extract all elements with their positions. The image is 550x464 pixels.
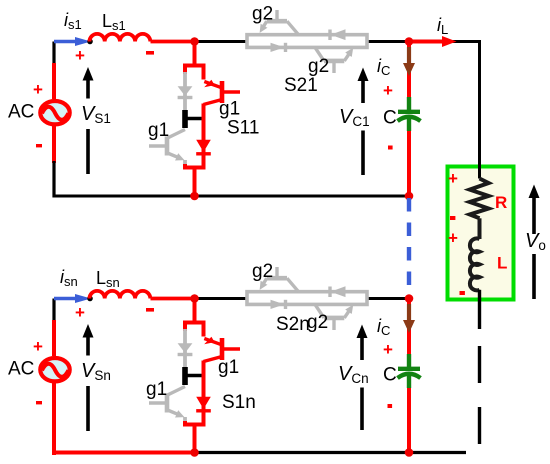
- node bar black S1n: [182, 367, 188, 385]
- svg-text:isn: isn: [60, 267, 78, 289]
- label minus Cn: [388, 404, 393, 408]
- diode gray S21 lower: [271, 43, 286, 52]
- wire AC branch red upper: [52, 63, 56, 99]
- svg-text:Ls1: Ls1: [102, 11, 126, 33]
- svg-text:+: +: [383, 81, 393, 100]
- label minus Ls1: [146, 51, 154, 55]
- arrow V_Cn upper: [360, 337, 364, 360]
- wire bottom rail red: [54, 453, 195, 456]
- svg-text:S11: S11: [227, 118, 259, 139]
- transistor gray S2n upper: [264, 267, 299, 292]
- wire cap2 red lower: [407, 388, 411, 453]
- arrow i_s1 blue: [54, 40, 76, 44]
- arrow V_C1 upper: [361, 80, 365, 103]
- label minus L: [460, 291, 465, 295]
- svg-text:C: C: [383, 108, 397, 129]
- svg-text:+: +: [33, 337, 43, 356]
- wire S11 bottom bracket: [185, 152, 204, 168]
- wire AC2 branch red lower: [52, 383, 56, 454]
- wire S1n bottom bracket: [185, 409, 204, 425]
- label minus AC: [36, 144, 42, 147]
- transistor gray S2n lower: [315, 304, 349, 330]
- arrow V_o lower: [532, 254, 536, 299]
- switch S21: [247, 4, 367, 97]
- switch S11: [148, 42, 259, 197]
- wire S1n mid link black: [185, 374, 204, 378]
- transistor gray S11: [149, 130, 185, 166]
- arrow V_Sn lower: [86, 386, 90, 431]
- svg-text:iC: iC: [377, 316, 390, 338]
- wire S11 mid link black: [185, 117, 204, 121]
- arrow V_C1 lower: [361, 131, 365, 176]
- svg-text:g2: g2: [252, 4, 273, 25]
- node cap C1: [405, 37, 414, 46]
- wire top rail black right to load: [366, 42, 480, 179]
- svg-text:AC: AC: [8, 359, 34, 380]
- svg-text:L: L: [497, 254, 507, 273]
- wire S11 left branch gray: [183, 72, 187, 112]
- wire inductor to node red: [151, 40, 195, 44]
- capacitor Cn: [398, 369, 421, 378]
- wire S1n top bracket: [185, 323, 204, 337]
- wire cap2 green lower: [407, 373, 411, 388]
- wire AC branch top black: [52, 42, 55, 66]
- arrow V_S1 upper: [86, 80, 90, 99]
- wire top rail black left: [195, 40, 249, 43]
- svg-text:S2n: S2n: [276, 314, 310, 335]
- svg-text:VC1: VC1: [339, 106, 370, 129]
- wire S11 stem top: [193, 42, 197, 66]
- svg-text:+: +: [75, 46, 85, 65]
- label minus C1: [388, 146, 393, 150]
- wire cap2 red upper: [407, 299, 411, 357]
- svg-text:g2: g2: [308, 56, 329, 77]
- node S1n top: [190, 294, 199, 303]
- load resistor R: [470, 179, 489, 219]
- svg-text:VSn: VSn: [81, 360, 111, 383]
- svg-text:S21: S21: [284, 75, 318, 96]
- svg-text:g1: g1: [148, 120, 169, 141]
- label minus R: [450, 216, 455, 220]
- wire cap green upper: [407, 97, 411, 112]
- node S11 top: [190, 37, 199, 46]
- switch S2n: [247, 261, 367, 335]
- capacitor branch Cn: [338, 299, 421, 453]
- wire S11 top bracket: [185, 66, 204, 80]
- transistor gray S21 lower: [315, 47, 349, 73]
- svg-text:+: +: [75, 303, 85, 322]
- node S1n bottom: [190, 448, 199, 457]
- wire S1n stem top: [193, 299, 197, 323]
- svg-text:Vo: Vo: [525, 230, 546, 253]
- node S11 bottom: [190, 192, 199, 201]
- diode D red S11: [196, 140, 211, 154]
- load inductor L: [470, 238, 480, 290]
- svg-text:+: +: [448, 169, 458, 188]
- svg-text:+: +: [33, 80, 43, 99]
- svg-text:g1: g1: [218, 357, 239, 378]
- node cap Cn top: [405, 294, 414, 303]
- capacitor C1: [398, 112, 421, 121]
- AC source V_Sn: [40, 358, 69, 381]
- svg-text:g2: g2: [307, 312, 328, 333]
- wire inductor2 to node red: [151, 297, 195, 301]
- wire load bottom solid: [478, 290, 481, 329]
- arrow i_L: [409, 40, 443, 44]
- wire top rail2 black right: [366, 297, 409, 300]
- wire cap2 green upper: [407, 354, 411, 369]
- inductor L_sn: [90, 291, 151, 299]
- svg-text:g2: g2: [252, 261, 273, 282]
- wire top rail2 black left: [195, 297, 249, 300]
- node bar black S11: [182, 110, 188, 128]
- wire S1n left branch gray: [183, 329, 187, 369]
- capacitor branch C1: [339, 42, 421, 197]
- label minus AC2: [36, 401, 42, 404]
- wire cap red upper: [407, 42, 411, 100]
- wire bottom rail black: [195, 451, 467, 454]
- svg-text:iC: iC: [377, 56, 390, 78]
- wire AC2 branch red upper: [52, 320, 56, 356]
- arrow i_C2 brown: [407, 304, 411, 321]
- wire AC branch red lower: [52, 126, 56, 163]
- load box RL: [448, 167, 514, 300]
- wire load bottom dashed: [478, 346, 481, 444]
- diode D red S1n: [196, 397, 211, 411]
- node inductor2 start: [87, 296, 93, 302]
- svg-text:is1: is1: [64, 10, 82, 32]
- arrow i_C brown: [407, 47, 411, 64]
- svg-text:S1n: S1n: [222, 392, 256, 413]
- diode D gray S11: [178, 86, 193, 97]
- label minus Lsn: [146, 308, 154, 312]
- wire S2n frame: [247, 292, 367, 305]
- transistor gray S1n: [149, 387, 185, 423]
- diode D gray S1n: [178, 343, 193, 354]
- wire blue dashed link: [407, 198, 411, 300]
- diode gray S2n lower: [271, 300, 286, 309]
- svg-text:AC: AC: [8, 102, 34, 123]
- arrow V_o upper: [532, 197, 536, 234]
- svg-text:+: +: [383, 340, 393, 359]
- transistor red S1n: [204, 337, 241, 362]
- diode gray S2n upper: [330, 286, 346, 297]
- AC source V_S1: [40, 101, 69, 124]
- inductor L_s1: [90, 34, 151, 42]
- svg-text:+: +: [448, 229, 458, 248]
- svg-text:R: R: [495, 193, 507, 212]
- svg-text:VS1: VS1: [81, 103, 111, 126]
- svg-text:C: C: [383, 365, 397, 386]
- arrow V_Cn lower: [360, 388, 364, 431]
- wire AC branch bottom black: [52, 161, 55, 198]
- wire S1n right branch mid red: [202, 361, 206, 425]
- wire cap red lower: [407, 131, 411, 196]
- diode gray S21 upper: [330, 29, 346, 40]
- wire S11 stem bottom: [193, 168, 197, 197]
- svg-text:iL: iL: [437, 15, 448, 37]
- arrow i_sn blue: [54, 297, 76, 301]
- node inductor start: [87, 39, 93, 45]
- arrow V_Sn upper: [86, 337, 90, 356]
- wire AC2 branch top black: [52, 299, 55, 323]
- transistor red S11: [204, 80, 241, 105]
- wire R to L: [478, 218, 482, 239]
- node cap Cn bottom: [405, 448, 414, 457]
- node cap C1 bottom: [405, 192, 414, 201]
- switch S1n: [146, 299, 256, 454]
- svg-text:VCn: VCn: [338, 363, 369, 386]
- transistor gray S21 upper: [264, 10, 299, 35]
- svg-text:Lsn: Lsn: [96, 268, 120, 290]
- arrow V_S1 lower: [86, 129, 90, 174]
- wire S1n stem bottom: [193, 425, 197, 454]
- svg-text:g1: g1: [219, 99, 240, 120]
- wire S11 right branch mid red: [202, 104, 206, 168]
- wire cap green lower: [407, 116, 411, 131]
- wire mid rail section1: [54, 195, 409, 198]
- wire S21 frame: [247, 35, 367, 48]
- svg-text:g1: g1: [146, 379, 167, 400]
